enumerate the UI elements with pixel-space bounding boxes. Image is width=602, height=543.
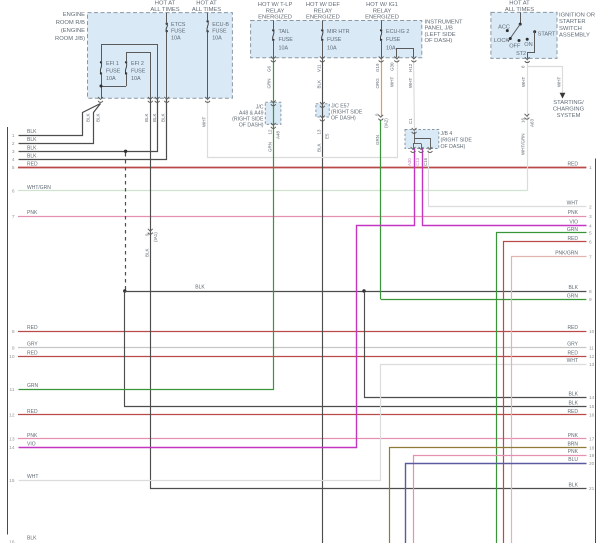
svg-text:(RIGHT SIDE: (RIGHT SIDE: [441, 137, 473, 143]
svg-text:RED: RED: [567, 236, 578, 242]
svg-text:OFF: OFF: [509, 44, 521, 50]
svg-text:ECU-B: ECU-B: [212, 22, 229, 28]
svg-text:IGNITION OR: IGNITION OR: [559, 13, 595, 19]
svg-text:HOT AT: HOT AT: [155, 1, 176, 7]
svg-text:TAIL: TAIL: [279, 29, 290, 35]
svg-text:3: 3: [589, 214, 592, 220]
svg-text:OF DASH): OF DASH): [425, 38, 453, 44]
svg-text:14: 14: [9, 445, 15, 451]
svg-text:RELAY: RELAY: [314, 8, 333, 14]
svg-text:12: 12: [9, 413, 15, 419]
svg-text:SWITCH: SWITCH: [559, 26, 582, 32]
svg-text:ETCS: ETCS: [171, 22, 186, 28]
svg-text:C1: C1: [408, 118, 413, 124]
svg-text:(IA2): (IA2): [384, 118, 389, 128]
svg-text:15: 15: [589, 404, 595, 410]
svg-text:BLK: BLK: [317, 80, 322, 89]
svg-text:HOT AT: HOT AT: [509, 1, 530, 7]
svg-text:10A: 10A: [171, 35, 181, 41]
svg-text:PNK: PNK: [27, 210, 38, 216]
svg-text:7: 7: [589, 254, 592, 260]
svg-text:ALL TIMES: ALL TIMES: [192, 7, 221, 13]
svg-text:ST2: ST2: [516, 51, 526, 57]
svg-text:14: 14: [589, 395, 595, 401]
svg-text:G19: G19: [375, 63, 380, 72]
svg-text:BLK: BLK: [152, 113, 157, 122]
svg-text:A63: A63: [530, 118, 535, 127]
svg-text:GRN: GRN: [567, 227, 579, 233]
svg-text:GRN: GRN: [567, 294, 579, 300]
svg-text:RELAY: RELAY: [266, 8, 285, 14]
svg-text:13: 13: [589, 362, 595, 368]
svg-text:FUSE: FUSE: [327, 37, 342, 43]
svg-text:VIO: VIO: [27, 442, 36, 448]
svg-text:ROOM R/B: ROOM R/B: [56, 20, 85, 26]
svg-text:WHT: WHT: [390, 77, 395, 87]
svg-text:BLK: BLK: [569, 400, 579, 406]
svg-text:10A: 10A: [279, 45, 289, 51]
svg-text:ORG: ORG: [375, 78, 380, 89]
svg-text:GRY: GRY: [27, 342, 38, 348]
svg-text:GRY: GRY: [567, 342, 578, 348]
svg-text:CHARGING: CHARGING: [553, 107, 585, 113]
svg-text:ALL TIMES: ALL TIMES: [505, 7, 534, 13]
svg-text:BLK: BLK: [569, 391, 579, 397]
svg-text:PNK: PNK: [568, 449, 579, 455]
svg-text:BLK: BLK: [144, 113, 149, 122]
svg-text:4: 4: [589, 223, 592, 229]
svg-text:ENERGIZED: ENERGIZED: [365, 15, 399, 21]
svg-text:G30: G30: [390, 62, 395, 71]
svg-text:12: 12: [268, 129, 273, 135]
svg-text:8: 8: [589, 289, 592, 295]
svg-text:BLK: BLK: [86, 113, 91, 122]
svg-text:H12: H12: [408, 63, 413, 72]
svg-text:2: 2: [12, 141, 15, 147]
svg-text:WHT: WHT: [202, 117, 207, 127]
svg-text:ACC: ACC: [498, 25, 510, 31]
svg-text:BLU: BLU: [568, 457, 578, 463]
svg-text:(RIGHT SIDE: (RIGHT SIDE: [331, 110, 363, 116]
svg-text:HOT W/ DEF: HOT W/ DEF: [306, 2, 340, 8]
svg-text:RED: RED: [567, 409, 578, 415]
svg-text:12: 12: [589, 354, 595, 360]
svg-text:HOT W/ T-LP: HOT W/ T-LP: [258, 2, 293, 8]
svg-text:G6: G6: [267, 65, 272, 72]
svg-text:FUSE: FUSE: [171, 29, 186, 35]
svg-text:11: 11: [10, 387, 15, 393]
svg-text:FUSE: FUSE: [386, 37, 401, 43]
svg-text:BLK: BLK: [145, 248, 150, 257]
svg-text:RELAY: RELAY: [373, 8, 392, 14]
svg-text:9: 9: [589, 297, 592, 303]
svg-text:GRN: GRN: [267, 79, 272, 89]
svg-text:PNK/GRN: PNK/GRN: [555, 251, 578, 257]
svg-text:BRN: BRN: [567, 442, 578, 448]
svg-text:(RIGHT SIDE: (RIGHT SIDE: [232, 117, 264, 123]
svg-text:FUSE: FUSE: [279, 37, 294, 43]
svg-text:WHT/GRN: WHT/GRN: [27, 185, 51, 191]
svg-text:GRN: GRN: [268, 142, 273, 152]
svg-text:WHT: WHT: [567, 358, 578, 364]
svg-text:A48: A48: [276, 130, 281, 139]
svg-text:BLK: BLK: [27, 536, 37, 542]
svg-text:8: 8: [12, 329, 15, 335]
svg-text:ENGINE: ENGINE: [63, 12, 85, 18]
svg-text:17: 17: [589, 437, 595, 443]
svg-text:1: 1: [12, 133, 15, 139]
svg-text:4: 4: [12, 157, 15, 163]
svg-text:ENERGIZED: ENERGIZED: [258, 15, 292, 21]
svg-text:16: 16: [589, 413, 595, 419]
svg-text:BLK: BLK: [27, 153, 37, 159]
svg-text:BLK: BLK: [96, 113, 101, 122]
svg-text:6: 6: [12, 189, 15, 195]
svg-text:BLK: BLK: [317, 143, 322, 152]
svg-text:9: 9: [12, 345, 15, 351]
svg-text:(LEFT SIDE: (LEFT SIDE: [425, 32, 456, 38]
svg-text:20: 20: [589, 461, 595, 467]
svg-text:C13: C13: [415, 157, 420, 166]
svg-text:WHT: WHT: [521, 77, 526, 87]
svg-text:ROOM J/B): ROOM J/B): [55, 36, 85, 42]
svg-text:RED: RED: [567, 162, 578, 168]
svg-text:PNK: PNK: [568, 433, 579, 439]
svg-text:ASSEMBLY: ASSEMBLY: [559, 32, 590, 38]
svg-text:BLK: BLK: [569, 285, 579, 291]
svg-text:WHT/GRN: WHT/GRN: [521, 134, 526, 156]
svg-text:(IA1): (IA1): [153, 232, 158, 242]
svg-text:6: 6: [521, 65, 526, 68]
svg-text:WHT: WHT: [27, 474, 38, 480]
svg-text:V11: V11: [317, 64, 322, 72]
svg-text:16: 16: [9, 539, 15, 543]
svg-text:C16: C16: [423, 157, 428, 166]
svg-text:RED: RED: [567, 350, 578, 356]
svg-text:OF DASH): OF DASH): [239, 123, 264, 129]
svg-text:19: 19: [589, 453, 595, 459]
svg-text:OF DASH): OF DASH): [331, 116, 356, 122]
svg-text:11: 11: [589, 345, 594, 351]
svg-text:RED: RED: [27, 325, 38, 331]
svg-text:ECU-IG 2: ECU-IG 2: [386, 29, 409, 35]
svg-text:3: 3: [12, 149, 15, 155]
svg-text:STARTER: STARTER: [559, 19, 586, 25]
svg-text:9: 9: [375, 113, 380, 116]
svg-text:(ENGINE: (ENGINE: [61, 28, 85, 34]
svg-text:PANEL J/B: PANEL J/B: [425, 26, 453, 32]
svg-text:FUSE: FUSE: [212, 29, 227, 35]
svg-text:INSTRUMENT: INSTRUMENT: [425, 20, 463, 26]
svg-text:EFI 1: EFI 1: [106, 61, 119, 67]
svg-text:10A: 10A: [131, 76, 141, 82]
svg-text:OF DASH): OF DASH): [441, 144, 466, 150]
svg-text:EFI 2: EFI 2: [131, 61, 144, 67]
svg-text:RED: RED: [27, 350, 38, 356]
svg-text:RED: RED: [27, 162, 38, 168]
svg-text:PNK: PNK: [568, 210, 579, 216]
svg-text:16: 16: [521, 117, 526, 123]
svg-text:HOT W/ IG1: HOT W/ IG1: [366, 2, 398, 8]
svg-text:BLK: BLK: [27, 137, 37, 143]
svg-text:1: 1: [589, 165, 592, 171]
svg-text:VIO: VIO: [569, 220, 578, 226]
svg-text:J/C: J/C: [256, 104, 264, 110]
svg-text:10A: 10A: [327, 45, 337, 51]
svg-text:START: START: [538, 32, 556, 38]
svg-text:SYSTEM: SYSTEM: [557, 113, 581, 119]
svg-text:6: 6: [589, 240, 592, 246]
svg-text:WHT: WHT: [557, 77, 562, 87]
svg-text:15: 15: [9, 478, 15, 484]
svg-text:18: 18: [589, 445, 595, 451]
svg-text:13: 13: [317, 129, 322, 135]
svg-text:BLK: BLK: [569, 483, 579, 489]
svg-text:PNK: PNK: [27, 433, 38, 439]
svg-text:ALL TIMES: ALL TIMES: [150, 7, 179, 13]
svg-text:GRN: GRN: [27, 383, 39, 389]
svg-text:13: 13: [9, 437, 15, 443]
svg-text:STARTING/: STARTING/: [553, 100, 584, 106]
svg-text:A48 & A49: A48 & A49: [239, 110, 264, 116]
svg-text:FUSE: FUSE: [106, 68, 121, 74]
svg-text:BLK: BLK: [161, 113, 166, 122]
svg-text:BLK: BLK: [195, 285, 205, 291]
svg-text:7: 7: [12, 214, 15, 220]
svg-text:21: 21: [589, 486, 595, 492]
svg-text:MIR HTR: MIR HTR: [327, 29, 350, 35]
svg-text:LOCK: LOCK: [494, 38, 510, 44]
svg-text:10A: 10A: [386, 45, 396, 51]
svg-text:HOT AT: HOT AT: [196, 1, 217, 7]
svg-text:WHT: WHT: [408, 78, 413, 88]
svg-text:E5: E5: [325, 133, 330, 139]
svg-text:10: 10: [9, 354, 15, 360]
svg-text:WHT: WHT: [567, 201, 578, 207]
svg-text:2: 2: [589, 204, 592, 210]
svg-text:BLK: BLK: [27, 146, 37, 152]
svg-text:A30: A30: [407, 158, 412, 166]
svg-text:ON: ON: [524, 42, 532, 48]
svg-text:BLK: BLK: [27, 129, 37, 135]
svg-text:5: 5: [12, 165, 15, 171]
svg-text:10A: 10A: [106, 76, 116, 82]
svg-text:ENERGIZED: ENERGIZED: [306, 15, 340, 21]
svg-text:RED: RED: [27, 409, 38, 415]
svg-text:10: 10: [589, 329, 595, 335]
svg-text:FUSE: FUSE: [131, 68, 146, 74]
svg-text:5: 5: [589, 231, 592, 237]
svg-text:10A: 10A: [212, 35, 222, 41]
svg-text:J/B 4: J/B 4: [441, 131, 453, 137]
svg-text:GRN: GRN: [375, 135, 380, 145]
svg-text:RED: RED: [567, 325, 578, 331]
svg-text:J/C E57: J/C E57: [331, 104, 350, 110]
